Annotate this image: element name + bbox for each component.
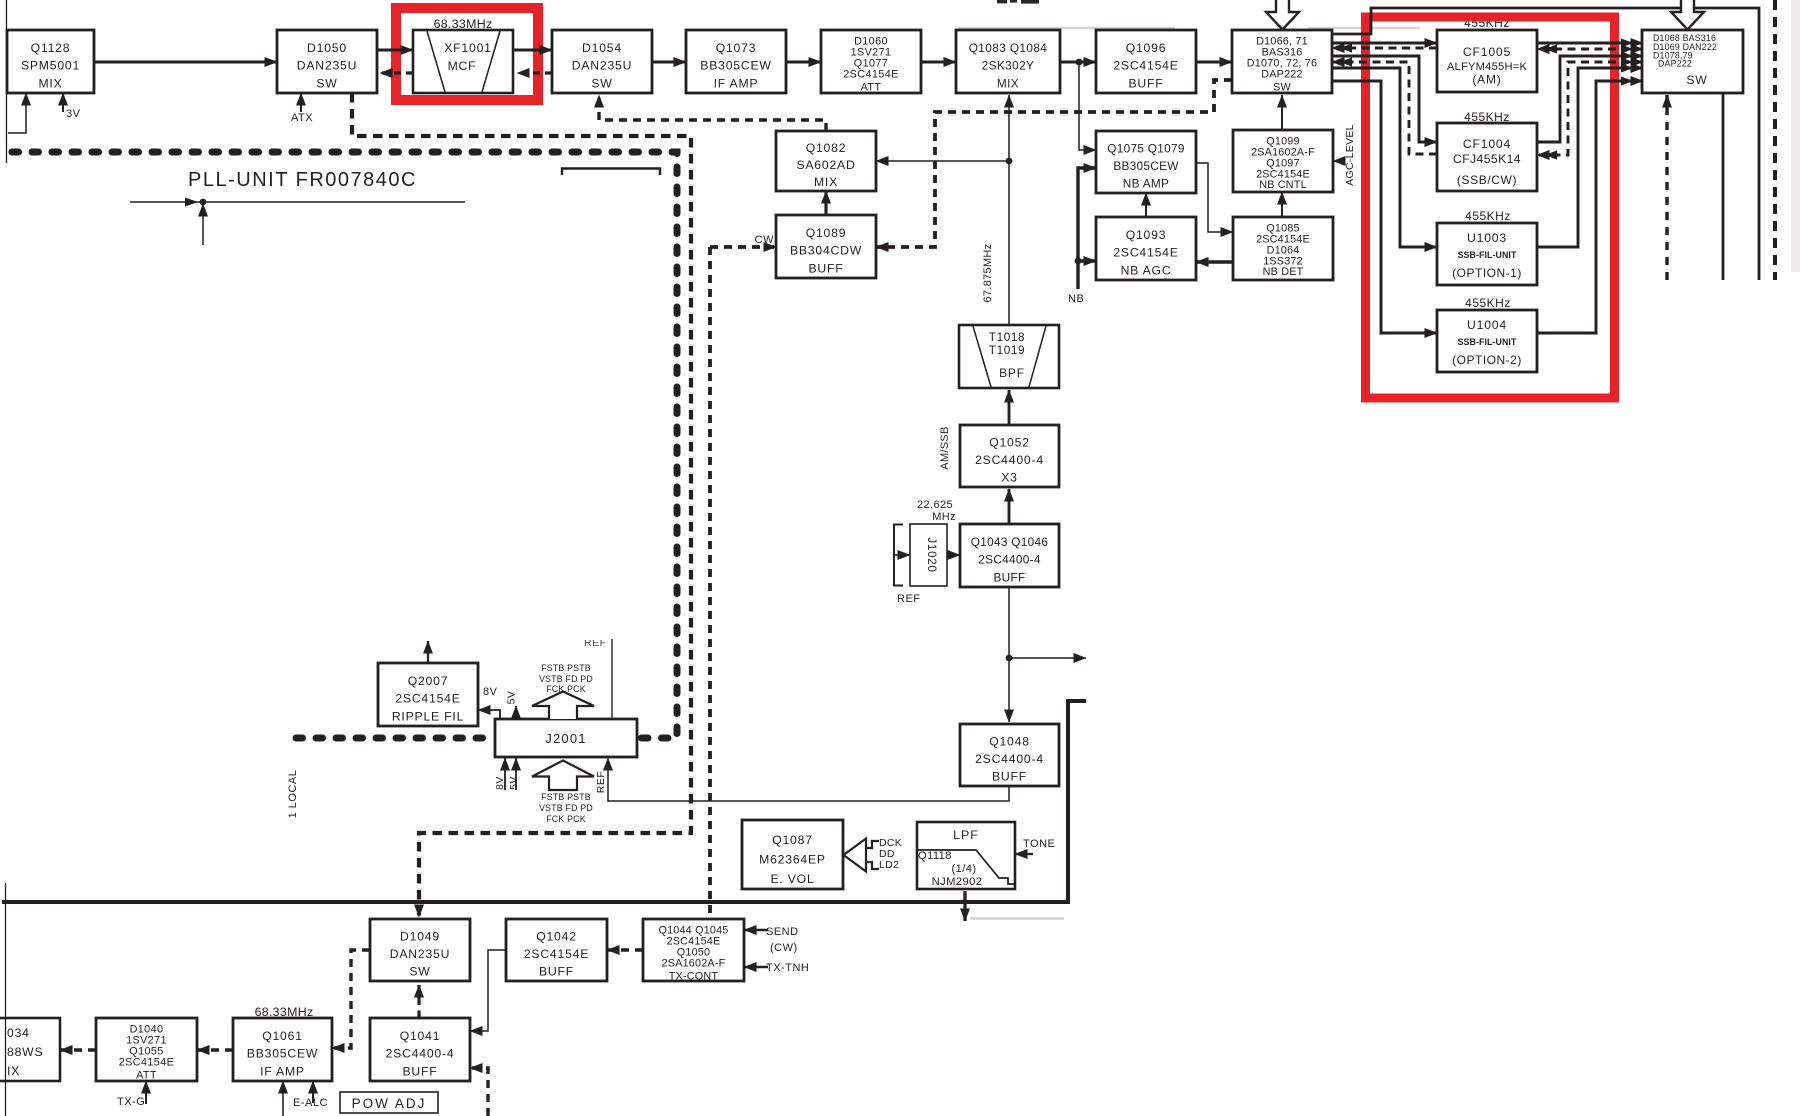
junction on Q1083-Q1096 wire — [1076, 59, 1083, 66]
svg-text:MCF: MCF — [448, 59, 477, 73]
junction on PLL line — [200, 199, 207, 206]
svg-text:NB: NB — [1068, 293, 1084, 305]
wire TONE into LPF — [1015, 853, 1033, 855]
wire E-ALC into Q1061 — [312, 1081, 314, 1103]
svg-text:MIX: MIX — [814, 175, 838, 189]
svg-text:BB305CEW: BB305CEW — [700, 59, 771, 73]
wire Q1099 to D1066 bottom — [1281, 95, 1283, 130]
wire dashed up into D1068 bottom — [1665, 95, 1668, 280]
svg-text:455KHz: 455KHz — [1465, 296, 1511, 310]
wire into Q1061 bottom — [282, 1081, 284, 1116]
bracket at J1020 input — [894, 525, 903, 586]
svg-text:Q1128: Q1128 — [31, 41, 71, 55]
wire D1054 to XF1001 (dashed return) — [517, 71, 552, 74]
svg-text:Q1089: Q1089 — [806, 226, 847, 240]
svg-text:FCK PCK: FCK PCK — [546, 814, 586, 824]
svg-text:5V: 5V — [508, 776, 520, 790]
svg-text:BUFF: BUFF — [808, 262, 843, 276]
svg-text:BUFF: BUFF — [992, 770, 1027, 784]
svg-text:BUFF: BUFF — [994, 571, 1026, 585]
svg-text:Q1048: Q1048 — [989, 735, 1030, 749]
wire U1004 to D1068 — [1537, 81, 1643, 333]
svg-text:455KHz: 455KHz — [1464, 110, 1510, 124]
IF amplifier Q1061 — [233, 1018, 332, 1081]
NB AGC Q1093 — [1096, 217, 1196, 280]
mixer block (cut at left edge) — [0, 1018, 60, 1081]
wire Q1089 to Q1082 — [824, 191, 827, 215]
wire D1066 to CF1004 — [1332, 56, 1437, 142]
svg-text:NB DET: NB DET — [1263, 266, 1304, 278]
svg-text:SPM5001: SPM5001 — [21, 59, 80, 73]
switch block D1049 — [370, 919, 470, 981]
svg-text:POW ADJ: POW ADJ — [352, 1096, 427, 1111]
svg-text:VSTB FD PD: VSTB FD PD — [539, 803, 593, 813]
wire thick dashed PLL bus — [12, 152, 677, 738]
second arrowhead accents on filter bus (double chevrons) — [1340, 38, 1633, 159]
svg-text:J1020: J1020 — [925, 537, 937, 572]
wire J1020 to Q1043 — [947, 554, 960, 556]
wire thick dashed into J2001 left — [296, 735, 495, 742]
svg-text:X3: X3 — [1001, 471, 1018, 485]
wire 67.875MHz from T1018 to Q1083 — [1008, 95, 1010, 325]
red highlight rectangle around XF1001 — [396, 8, 538, 100]
wire TX-TNH into Q1044 — [744, 966, 768, 969]
svg-text:CW: CW — [755, 234, 774, 246]
wire XF1001 to D1054 — [513, 48, 552, 51]
svg-text:NB AMP: NB AMP — [1123, 177, 1169, 191]
svg-text:CF1005: CF1005 — [1463, 45, 1511, 59]
svg-text:Q1052: Q1052 — [989, 436, 1030, 450]
clipped text fragment at top edge — [997, 0, 1007, 3]
svg-text:D1050: D1050 — [307, 41, 347, 55]
wire Q1073 to D1060 — [786, 60, 821, 63]
svg-text:Q1118: Q1118 — [918, 850, 952, 862]
wire D1040 to left mixer (dashed) — [60, 1048, 96, 1051]
svg-text:BPF: BPF — [999, 366, 1025, 380]
svg-text:Q1075 Q1079: Q1075 Q1079 — [1107, 142, 1184, 156]
svg-text:2SC4154E: 2SC4154E — [1113, 246, 1178, 260]
svg-text:BB305CEW: BB305CEW — [1113, 159, 1179, 173]
wire into Q1128 bottom — [8, 93, 26, 133]
svg-text:2SC4400-4: 2SC4400-4 — [978, 553, 1041, 567]
tripler Q1052 — [960, 425, 1059, 487]
wire junction down to NB amp — [1079, 62, 1096, 150]
svg-text:J2001: J2001 — [545, 731, 586, 746]
svg-text:E-ALC: E-ALC — [293, 1097, 328, 1109]
crystal filter XF1001 MCF — [413, 30, 513, 93]
svg-text:MIX: MIX — [38, 77, 62, 91]
svg-text:2SC4154E: 2SC4154E — [524, 947, 589, 961]
wire D1049 to Q1061 (dashed) — [332, 950, 370, 1048]
svg-text:RIPPLE FIL: RIPPLE FIL — [392, 710, 464, 724]
svg-text:SA602AD: SA602AD — [796, 158, 855, 172]
svg-text:LPF: LPF — [953, 828, 979, 842]
svg-text:NB CNTL: NB CNTL — [1259, 179, 1307, 191]
SSB filter unit U1003 option 1 — [1437, 223, 1537, 285]
wire 8V into J2001 bottom — [504, 758, 506, 790]
wire XF1001 to D1050 (dashed return) — [380, 71, 413, 74]
svg-text:E. VOL: E. VOL — [770, 872, 814, 886]
svg-text:U1004: U1004 — [1467, 318, 1507, 332]
wire PLL unit line — [130, 201, 465, 203]
wire CF1005 to D1066 (dashed) — [1332, 47, 1437, 50]
svg-text:(AM): (AM) — [1472, 73, 1501, 87]
svg-text:Q1043 Q1046: Q1043 Q1046 — [971, 535, 1049, 549]
wire Q1083 to Q1096 — [1060, 60, 1096, 63]
svg-text:DAN235U: DAN235U — [390, 947, 450, 961]
svg-text:(CW): (CW) — [770, 942, 798, 954]
svg-text:22.625: 22.625 — [917, 499, 953, 511]
scan artifact: gray line below LPF — [970, 917, 1064, 919]
wire TX-G into D1040 — [145, 1081, 147, 1104]
ripple filter Q2007 — [378, 663, 478, 726]
junction on 67.875MHz line — [1006, 158, 1013, 165]
wire D1068 CF1005 dashed link — [1537, 48, 1643, 51]
wire AGC-LEVEL into Q1099 — [1333, 160, 1344, 162]
wire 3V into Q1128 — [62, 93, 64, 112]
ceramic filter CF1005 (AM) — [1437, 30, 1537, 92]
svg-text:M62364EP: M62364EP — [759, 852, 826, 866]
svg-text:Q1093: Q1093 — [1126, 228, 1167, 242]
svg-text:8V: 8V — [483, 686, 498, 698]
svg-text:BUFF: BUFF — [1128, 77, 1163, 91]
red highlight rectangle around 455KHz filter bank — [1366, 17, 1615, 398]
svg-text:D1054: D1054 — [582, 41, 622, 55]
svg-text:2SC4154E: 2SC4154E — [119, 1057, 174, 1069]
svg-text:BB305CEW: BB305CEW — [247, 1047, 318, 1061]
svg-text:ATX: ATX — [291, 112, 313, 124]
buffer Q1089 BB304CDW — [776, 215, 876, 278]
wire Q1043 to Q1052 — [1008, 489, 1011, 524]
scan edge line bottom left — [5, 883, 7, 1116]
svg-text:2SA1602A-F: 2SA1602A-F — [662, 958, 726, 970]
scan artifact: gray strip right edge — [1791, 0, 1800, 272]
svg-text:REF: REF — [897, 593, 921, 605]
mixer Q1082 SA602AD — [776, 131, 876, 191]
svg-text:68.33MHz: 68.33MHz — [434, 17, 493, 31]
svg-text:455KHz: 455KHz — [1465, 209, 1511, 223]
wire dashed vertical right margin — [1773, 0, 1777, 280]
NB amplifier Q1075 Q1079 — [1096, 131, 1196, 193]
wire junction to Q1082 input — [876, 160, 1009, 162]
svg-text:NB AGC: NB AGC — [1121, 264, 1172, 278]
hollow arrow up above J2001 — [532, 692, 594, 720]
svg-text:REF: REF — [595, 771, 607, 794]
wire D1066 to U1004 — [1332, 81, 1437, 333]
wire Q1044 to Q1042 (dashed) — [607, 948, 643, 951]
svg-text:Q1061: Q1061 — [262, 1029, 303, 1043]
wire D1066 to Q1089 (dashed) — [876, 80, 1232, 247]
svg-text:2SC4400-4: 2SC4400-4 — [975, 453, 1044, 467]
svg-text:TX-TNH: TX-TNH — [766, 962, 809, 974]
switch block D1054 — [552, 30, 652, 93]
wire Q1085 to Q1093 — [1196, 260, 1233, 263]
TX control Q1044 Q1045 Q1050 — [643, 919, 744, 983]
wire into J1020 — [894, 554, 910, 556]
wire REF stub above J2001 — [611, 639, 613, 719]
wire U1003 to D1068 — [1537, 68, 1643, 247]
svg-text:Q1042: Q1042 — [536, 930, 577, 944]
hollow arrow into D1068 top — [1671, 0, 1704, 30]
wire D1066 to U1003 — [1332, 68, 1437, 247]
svg-text:(1/4): (1/4) — [951, 863, 976, 875]
svg-text:LD2: LD2 — [879, 859, 899, 871]
wire REF from Q1048 into J2001 — [608, 758, 1009, 801]
svg-text:IF AMP: IF AMP — [714, 77, 759, 91]
wire 5V stub above J2001 — [515, 706, 517, 719]
svg-text:Q2007: Q2007 — [408, 674, 449, 688]
scan edge line top left — [6, 0, 8, 163]
wire 8V from J2001 to Q2007 — [478, 710, 500, 719]
connector J1020 — [910, 524, 947, 586]
arrowhead on PLL line — [185, 198, 198, 207]
svg-text:ATT: ATT — [136, 1070, 157, 1082]
svg-text:MIX: MIX — [997, 77, 1019, 91]
svg-text:2SC4154E: 2SC4154E — [1113, 59, 1178, 73]
svg-text:1 LOCAL: 1 LOCAL — [287, 770, 299, 819]
wire Q1061 to D1040 (dashed) — [197, 1048, 233, 1051]
wire Q1085 to Q1099 — [1281, 192, 1283, 217]
wire Q1128 to D1050 — [94, 60, 277, 63]
svg-text:Q1041: Q1041 — [400, 1029, 441, 1043]
wire D1066 top feed over to D1068 column — [1332, 8, 1759, 280]
svg-text:DAP222: DAP222 — [1261, 69, 1302, 81]
IF amplifier Q1073 — [686, 30, 786, 93]
svg-text:D1049: D1049 — [400, 930, 440, 944]
buffer Q1048 — [960, 724, 1059, 786]
wire branch arrow right — [1009, 657, 1086, 659]
svg-text:CFJ455K14: CFJ455K14 — [1453, 152, 1521, 166]
buffer Q1041 — [370, 1018, 470, 1081]
connector J2001 — [495, 719, 637, 757]
wire CF1004 D1068 dashed link — [1537, 62, 1643, 155]
svg-text:T1018: T1018 — [989, 330, 1025, 344]
wire NB branch to Q1093 — [1078, 259, 1096, 262]
svg-text:034: 034 — [7, 1026, 30, 1040]
wire D1068 bottom down — [1722, 93, 1725, 280]
wire Q1096 to D1066 — [1196, 60, 1232, 63]
junction on NB line — [1075, 258, 1082, 265]
svg-text:FSTB PSTB: FSTB PSTB — [541, 792, 591, 802]
NB detector Q1085/D1064 — [1233, 217, 1333, 280]
svg-text:SW: SW — [1273, 82, 1291, 94]
svg-text:Q1087: Q1087 — [772, 833, 813, 847]
switch block D1066 — [1232, 30, 1332, 94]
wire CW dashed down to Q1044 — [708, 247, 712, 919]
ceramic filter CF1004 (SSB/CW) — [1437, 123, 1537, 191]
svg-text:5V: 5V — [506, 691, 518, 705]
wire up into PLL line — [202, 204, 204, 245]
svg-text:U1003: U1003 — [1467, 231, 1507, 245]
SSB filter unit U1004 option 2 — [1437, 310, 1537, 372]
svg-text:NJM2902: NJM2902 — [932, 876, 983, 888]
bandpass filter T1018 T1019 BPF — [959, 325, 1059, 388]
hollow arrow up below J2001 — [532, 761, 594, 791]
wire Q1043 down with junction — [1008, 587, 1010, 722]
svg-text:ATT: ATT — [861, 82, 882, 94]
svg-text:SW: SW — [409, 965, 430, 979]
top bracket marker — [562, 169, 660, 176]
wire CW dashed into Q1089 — [710, 245, 776, 249]
svg-text:IF AMP: IF AMP — [260, 1065, 305, 1079]
wire CF1005 to D1068 — [1537, 42, 1643, 45]
svg-text:DAP222: DAP222 — [1658, 59, 1692, 69]
svg-text:PLL-UNIT FR007840C: PLL-UNIT FR007840C — [188, 169, 417, 191]
switch block D1050 — [277, 30, 377, 93]
wire Q2007 output up — [427, 641, 429, 663]
svg-text:MHz: MHz — [932, 511, 956, 523]
svg-text:FCK PCK: FCK PCK — [546, 684, 586, 694]
wire ATX into D1050 — [300, 93, 302, 112]
svg-text:3V: 3V — [66, 108, 81, 120]
wire D1060 to Q1083 — [921, 60, 956, 63]
svg-text:DAN235U: DAN235U — [572, 59, 632, 73]
svg-text:SW: SW — [1686, 73, 1707, 87]
svg-text:2SC4400-4: 2SC4400-4 — [975, 752, 1044, 766]
svg-text:T1019: T1019 — [989, 343, 1025, 357]
svg-text:TX-G: TX-G — [117, 1096, 145, 1108]
attenuator D1040/Q1055 — [96, 1018, 197, 1082]
svg-text:ALFYM455H=K: ALFYM455H=K — [1447, 61, 1528, 73]
mixer Q1083 Q1084 — [956, 30, 1060, 93]
svg-text:AM/SSB: AM/SSB — [939, 426, 951, 469]
mixer block Q1128 — [7, 30, 94, 93]
junction below Q1043 — [1006, 655, 1013, 662]
wire D1066 to CF1005 — [1332, 42, 1437, 45]
svg-text:Q1073: Q1073 — [716, 41, 757, 55]
wire CF1004 to D1068 — [1537, 56, 1643, 142]
svg-text:BUFF: BUFF — [539, 965, 574, 979]
wire dashed D1050 down to D1049 — [352, 93, 691, 917]
svg-text:Q1082: Q1082 — [806, 141, 847, 155]
svg-text:2SK302Y: 2SK302Y — [982, 59, 1035, 73]
low pass filter Q1118 NJM2902 LPF — [917, 822, 1015, 889]
svg-text:XF1001: XF1001 — [444, 41, 492, 55]
wire Q1052 to T1018 — [1008, 390, 1011, 425]
electronic volume Q1087 M62364EP — [742, 820, 843, 889]
svg-text:8V: 8V — [494, 776, 506, 790]
svg-text:FSTB PSTB: FSTB PSTB — [541, 663, 591, 673]
POW ADJ box — [340, 1092, 438, 1113]
wire LPF output down — [963, 891, 966, 921]
wire dashed from Q1082 top to D1054 — [599, 95, 826, 131]
svg-text:88WS: 88WS — [7, 1045, 43, 1059]
svg-text:Q1096: Q1096 — [1126, 41, 1167, 55]
svg-text:CF1004: CF1004 — [1463, 137, 1511, 151]
wire SEND into Q1044 — [744, 929, 768, 932]
wire thick L corner right of Q1048 — [2, 701, 1086, 902]
buffer Q1042 — [506, 919, 607, 981]
svg-text:SW: SW — [591, 77, 612, 91]
svg-text:TONE: TONE — [1023, 838, 1055, 850]
wire D1054 to Q1073 — [652, 60, 686, 63]
svg-text:2SC4400-4: 2SC4400-4 — [386, 1047, 455, 1061]
wire Q1075 to Q1085 — [1196, 163, 1233, 232]
buffer Q1043 Q1046 — [960, 524, 1059, 587]
buffer Q1096 — [1096, 30, 1196, 93]
svg-text:(SSB/CW): (SSB/CW) — [1457, 173, 1517, 187]
wire D1050 to XF1001 — [377, 48, 413, 51]
svg-text:TX-CONT: TX-CONT — [669, 971, 719, 983]
wire dashed from bottom into Q1041 — [470, 1068, 488, 1116]
svg-text:BB304CDW: BB304CDW — [790, 244, 862, 258]
wire Q1093 to Q1075 — [1145, 193, 1147, 217]
svg-text:Q1083 Q1084: Q1083 Q1084 — [969, 41, 1048, 55]
wire Q1042 to Q1041 — [470, 950, 506, 1031]
svg-text:67.875MHz: 67.875MHz — [982, 244, 994, 303]
svg-text:68.33MHz: 68.33MHz — [255, 1005, 314, 1019]
svg-text:AGC-LEVEL: AGC-LEVEL — [1344, 124, 1356, 186]
wire NB input up to Q1075 — [1078, 168, 1096, 289]
hollow arrow into Q1087 (DCK DD LD2) — [844, 839, 867, 872]
switch block D1068 — [1642, 30, 1743, 93]
wire CF1004 to D1066 (dashed) — [1332, 62, 1437, 154]
svg-text:2SC4154E: 2SC4154E — [395, 692, 460, 706]
svg-text:VSTB FD PD: VSTB FD PD — [539, 674, 593, 684]
wire Q1041 to D1049 — [417, 985, 420, 1018]
svg-text:(OPTION-2): (OPTION-2) — [1452, 353, 1522, 367]
svg-text:SEND: SEND — [766, 926, 799, 938]
attenuator D1060/Q1077 — [821, 30, 921, 94]
svg-text:2SC4154E: 2SC4154E — [843, 69, 898, 81]
svg-text:IX: IX — [7, 1064, 20, 1078]
svg-text:DAN235U: DAN235U — [297, 59, 357, 73]
wire 5V into J2001 bottom — [515, 758, 517, 790]
svg-text:BUFF: BUFF — [402, 1065, 437, 1079]
NB control Q1099/Q1097 — [1233, 130, 1333, 192]
svg-text:SSB-FIL-UNIT: SSB-FIL-UNIT — [1458, 337, 1517, 347]
svg-text:SSB-FIL-UNIT: SSB-FIL-UNIT — [1458, 250, 1517, 260]
svg-text:(OPTION-1): (OPTION-1) — [1452, 266, 1522, 280]
hollow arrow into D1066 top — [1266, 0, 1299, 30]
scan artifact: gray page-edge line top — [958, 27, 1420, 30]
svg-text:SW: SW — [316, 77, 337, 91]
